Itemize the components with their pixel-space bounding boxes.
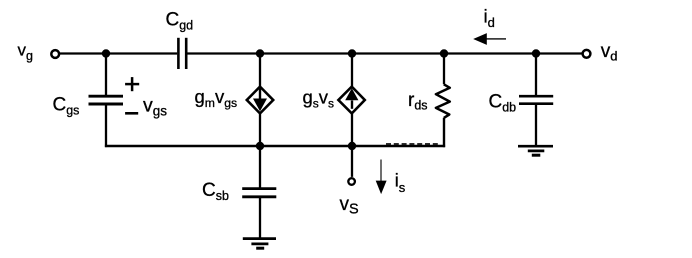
wire Cdb top stub [535, 54, 537, 97]
gs source arrow (up) [345, 88, 358, 109]
wire Cdb bottom stub [535, 104, 537, 146]
dependent source U2 gs*vs diamond [338, 87, 364, 114]
current arrow i_s [376, 160, 387, 195]
terminal vd [583, 50, 591, 58]
wire gm source stub top [259, 54, 261, 87]
wire vS terminal stub [351, 146, 353, 177]
wire rds top stub [443, 54, 445, 85]
wire gs source stub bottom [351, 114, 353, 147]
node gs top junction [348, 49, 356, 57]
node gm bottom junction [256, 142, 264, 150]
capacitor C_gs plates [89, 96, 124, 104]
current arrow i_d [473, 33, 506, 45]
node drain-rds junction [440, 49, 448, 57]
wire gate branch lower [105, 104, 107, 147]
wire gate branch upper [105, 54, 107, 97]
ground (Cdb) [518, 146, 553, 155]
wire top rail right (Cgd to vd terminal) [187, 52, 581, 54]
wire Csb bottom stub [259, 197, 261, 238]
node gate junction [102, 49, 110, 57]
dependent source U1 gm*vgs diamond [247, 87, 273, 114]
wire gs source stub top [351, 54, 353, 87]
gm source arrow (down) [253, 88, 267, 111]
ground (Csb) [243, 239, 276, 249]
wire rds bottom stub [443, 118, 445, 147]
wire top rail left (vg terminal to Cgd) [60, 52, 177, 54]
terminal vS [348, 178, 355, 185]
node gs bottom junction [348, 142, 356, 150]
capacitor C_gd plates [178, 38, 186, 69]
wire bottom rail [105, 145, 445, 147]
capacitor C_sb plates [242, 189, 276, 197]
node drain-Cdb junction [532, 49, 540, 57]
terminal vg [51, 50, 59, 58]
node gm top junction [256, 49, 264, 57]
wire Csb top stub [259, 146, 261, 189]
plus sign [125, 77, 139, 91]
capacitor C_db plates [519, 96, 553, 104]
minus sign [125, 112, 138, 115]
wire gm source stub bottom [259, 114, 261, 147]
resistor r_ds zigzag [436, 84, 450, 118]
dashed bulk line [386, 143, 438, 145]
